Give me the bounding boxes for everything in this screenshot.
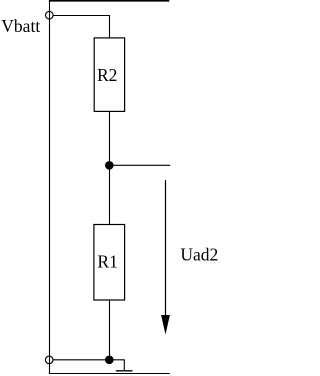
svg-text:R1: R1	[97, 252, 117, 272]
terminal (bottom battery connection)	[45, 356, 53, 364]
svg-text:Vbatt: Vbatt	[1, 16, 40, 36]
wire: R1 bottom to ground node	[109, 300, 111, 360]
label Uad2	[180, 244, 218, 264]
wire: bottom rail	[49, 373, 170, 375]
node: ground junction	[105, 356, 114, 365]
wire: ground node to ground symbol	[109, 360, 124, 371]
wire: R2 bottom to node A	[109, 111, 111, 165]
resistor R1	[94, 225, 125, 301]
resistor R2	[94, 38, 124, 112]
wire: left vertical Vbatt rail	[49, 1, 51, 374]
wire: bottom terminal to ground node	[53, 359, 109, 361]
value label R1	[97, 252, 117, 272]
wire: Vbatt terminal to R2 top	[53, 16, 110, 38]
svg-text:R2: R2	[97, 65, 117, 85]
wire: node A stub to measurement point	[109, 164, 170, 166]
node A junction (divider tap)	[105, 161, 114, 170]
wire: node A to R1 top	[109, 165, 111, 224]
ground	[116, 370, 133, 372]
arrow Uad2 (voltage measurement)	[161, 180, 170, 335]
terminal (top battery connection)	[46, 11, 54, 19]
net label Vbatt	[1, 16, 40, 36]
wire: top rail from Vbatt terminal	[49, 0, 169, 2]
svg-text:Uad2: Uad2	[180, 244, 218, 264]
value label R2	[97, 65, 117, 85]
